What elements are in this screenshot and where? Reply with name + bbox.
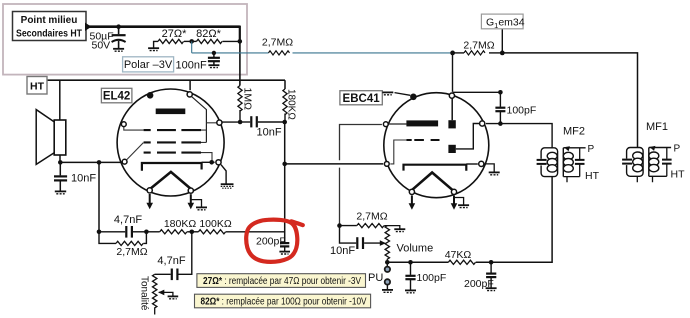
EBC41 cathode xyxy=(404,165,467,171)
wire: teal bias line down from node xyxy=(191,41,193,53)
wire: riser to output transformer xyxy=(59,80,61,120)
svg-text:27Ω* : remplacée par 47Ω pour: 27Ω* : remplacée par 47Ω pour obtenir -3… xyxy=(203,276,361,287)
EL42 heater xyxy=(150,172,191,189)
wire 47K to corner and up to MF2 xyxy=(476,177,552,263)
EL42 cathode ground wire xyxy=(221,165,226,184)
potentiometer Volume xyxy=(385,226,433,263)
svg-text:Point milieu: Point milieu xyxy=(21,15,78,26)
wire: to EBC41 left bottom pin xyxy=(285,163,384,165)
tube EL42 envelope xyxy=(117,89,224,196)
node between 27 and 82 xyxy=(189,39,194,44)
node: EBC41 anode / coupling xyxy=(282,120,287,125)
ground PU xyxy=(382,290,393,292)
svg-text:82Ω* : remplacée par 100Ω pou: 82Ω* : remplacée par 100Ω pour obtenir -… xyxy=(201,297,367,308)
capacitor 10nF (speaker) xyxy=(54,162,96,191)
svg-text:Tonalité: Tonalité xyxy=(139,276,150,311)
wire 10nF to node xyxy=(258,121,285,123)
EBC41 diode anode squares xyxy=(448,120,455,128)
svg-text:10nF: 10nF xyxy=(71,173,96,185)
capacitor 100pF (PU filter) xyxy=(405,262,446,290)
EL42 internal anode bar xyxy=(156,109,186,115)
svg-text:Polar –3V: Polar –3V xyxy=(124,59,173,71)
svg-text:EL42: EL42 xyxy=(103,91,131,103)
svg-text:P: P xyxy=(674,144,681,155)
label box HT xyxy=(27,77,47,95)
resistor 2,7M ohm (feedback, parallel loop) xyxy=(99,232,148,258)
node: feedback network right xyxy=(144,230,149,235)
svg-text:100nF: 100nF xyxy=(176,59,207,71)
svg-text:2,7MΩ: 2,7MΩ xyxy=(463,40,494,52)
ground at left of 27 ohm xyxy=(148,48,159,50)
EBC41 pin bottom right heater xyxy=(451,189,456,194)
EL42 pin bottom left heater xyxy=(147,188,152,193)
EL42 pin bottom right heater xyxy=(188,188,193,193)
capacitor 10nF (PU coupling) xyxy=(330,226,386,257)
capacitor 100nF (bias) xyxy=(176,53,220,71)
wire to 2,7M right xyxy=(453,52,464,54)
svg-text:10nF: 10nF xyxy=(330,245,355,257)
outer box around bias supply section xyxy=(3,4,247,75)
wire: cathode line to EL42 xyxy=(60,161,121,163)
svg-text:2,7MΩ: 2,7MΩ xyxy=(116,246,147,258)
wire EBC41 heater to ground xyxy=(454,198,464,205)
wire: feedback drop xyxy=(98,162,100,231)
node: 200pF tap xyxy=(489,260,494,265)
ground for 10nF speaker xyxy=(55,191,66,193)
svg-text:4,7nF: 4,7nF xyxy=(114,214,142,226)
arrow from Point milieu box xyxy=(85,23,92,31)
MF2 secondary xyxy=(562,148,564,177)
wire: bottom line volume to 47K xyxy=(387,261,448,263)
svg-text:PU: PU xyxy=(368,272,383,284)
output transformer winding xyxy=(54,120,66,155)
EL42 pin left bottom xyxy=(122,159,127,164)
note box 1 xyxy=(197,274,366,288)
EL42 heater arrow left xyxy=(149,194,151,204)
svg-text:EBC41: EBC41 xyxy=(343,93,381,105)
wire between resistors xyxy=(184,40,197,42)
wire: top main rail from arrow to right corner xyxy=(89,25,240,28)
EBC41 grid to left bottom pin (grey) xyxy=(390,140,406,164)
ground EBC41 top left xyxy=(382,92,393,94)
EL42 pin left top xyxy=(121,122,126,127)
svg-text:1MΩ: 1MΩ xyxy=(242,88,254,111)
EBC41 pin top (diode) xyxy=(449,93,454,98)
wire: stub from ground up to 27 ohm xyxy=(154,41,158,48)
label box Polar -3V xyxy=(123,57,174,72)
label box Point milieu / Secondaires HT xyxy=(13,12,87,41)
EL42 internal grey connections xyxy=(124,123,217,161)
EBC41 heater xyxy=(412,173,452,190)
resistor 1M ohm vertical xyxy=(238,86,242,112)
speaker cone xyxy=(36,110,54,165)
note box 2 xyxy=(195,294,371,308)
wire: tone drop xyxy=(179,232,192,274)
svg-text:100KΩ: 100KΩ xyxy=(199,218,232,230)
label box EL42 xyxy=(101,88,131,103)
wire: diode line to 100pF xyxy=(453,91,501,93)
capacitor 4,7nF (feedback) xyxy=(99,214,146,238)
wire EL42 grid pin to node xyxy=(222,121,240,123)
EBC41 heater arrow left xyxy=(411,196,413,205)
wire: EBC41 riser from teal node down to top pin xyxy=(452,53,454,92)
node: G1em34 junction xyxy=(500,51,505,56)
ground EL42 heater xyxy=(196,207,207,209)
wire: EBC41 right pin to MF2 xyxy=(486,124,552,148)
svg-text:200pF: 200pF xyxy=(256,235,286,247)
EBC41 pin bottom left heater xyxy=(409,189,414,194)
node: 100pF bottom xyxy=(498,121,503,126)
wire: EBC41 grid routing (down to volume) with hop over anode wire xyxy=(340,125,382,226)
node: EL42 grid xyxy=(238,120,243,125)
node: 50uF tap xyxy=(116,24,121,29)
node: feedback network left xyxy=(97,230,102,235)
resistor 27 ohm* xyxy=(158,39,184,43)
wire: long vertical to tone network xyxy=(284,122,286,242)
ground Tonalite wiper xyxy=(168,296,179,298)
svg-text:50V: 50V xyxy=(92,40,111,52)
ground 2,7M volume xyxy=(394,229,405,231)
node: 100pF tap xyxy=(408,260,413,265)
EBC41 pin right top xyxy=(480,121,485,126)
node: EL42 cathode xyxy=(209,160,214,165)
wire 180K to node xyxy=(284,114,286,123)
capacitor 200pF (red circled) xyxy=(256,235,289,251)
svg-text:180KΩ: 180KΩ xyxy=(164,218,197,230)
ground EBC41 heater xyxy=(458,205,469,207)
capacitor 100pF (detector) xyxy=(495,92,536,123)
svg-text:82Ω*: 82Ω* xyxy=(196,28,221,40)
resistor 180K ohm (horizontal) xyxy=(146,231,159,233)
EBC41 internal anode bar xyxy=(406,120,438,126)
wire cathode to right bottom pin xyxy=(466,163,478,165)
EL42 pin marker (filled) xyxy=(147,92,154,99)
connector PU jacks xyxy=(368,262,390,289)
svg-text:MF2: MF2 xyxy=(563,126,585,138)
wire 100K to 200pF node xyxy=(226,231,285,233)
svg-text:Secondaires HT: Secondaires HT xyxy=(16,28,82,39)
EL42 anode pin internal diagonal xyxy=(192,97,207,143)
EBC41 grid dashes xyxy=(407,139,440,141)
svg-text:100pF: 100pF xyxy=(417,272,447,284)
capacitor C 50uF/50V electrolytic xyxy=(90,27,126,52)
EBC41 top-left ground wire xyxy=(395,93,411,96)
ground for 50uF xyxy=(113,49,124,51)
svg-text:HT: HT xyxy=(585,170,600,182)
EBC41 top diode to top pin xyxy=(451,98,453,120)
ground 100pF xyxy=(405,290,416,292)
EBC41 pin left top (grid) xyxy=(383,122,388,127)
resistor 2,7Mohm (bias line left) xyxy=(269,51,290,55)
EL42 grid1 dashes xyxy=(144,152,201,154)
EL42 grid2 dashes xyxy=(144,141,201,143)
wire: HT rail xyxy=(47,79,285,81)
EBC41 heater arrow right xyxy=(453,196,455,204)
wire 1M to node xyxy=(239,110,241,122)
node: speaker / cathode line xyxy=(58,160,63,165)
MF2 primary tank xyxy=(541,148,558,177)
ground EBC41 right xyxy=(489,172,500,174)
node: 100nF tap on teal line xyxy=(212,51,216,55)
svg-text:HT: HT xyxy=(30,81,45,93)
wire 82 ohm to corner xyxy=(223,40,240,42)
EBC41 anode to left pin (grey) xyxy=(389,123,407,125)
node: volume network top xyxy=(337,223,342,228)
svg-text:MF1: MF1 xyxy=(646,121,668,133)
ground 200pF red xyxy=(279,252,290,254)
wire below transformer xyxy=(59,155,61,162)
svg-text:P: P xyxy=(588,144,595,155)
svg-text:2,7MΩ: 2,7MΩ xyxy=(262,37,293,49)
capacitor 200pF (IF filter) xyxy=(464,262,496,290)
wire: stem up to G1em34 box xyxy=(501,29,503,53)
transformer MF2 xyxy=(537,126,600,183)
transformer MF1 xyxy=(622,121,685,183)
svg-text:10nF: 10nF xyxy=(257,127,282,139)
node: teal line meets EBC41 riser xyxy=(450,51,455,56)
svg-text:4,7nF: 4,7nF xyxy=(157,255,185,267)
svg-text:Volume: Volume xyxy=(397,243,434,255)
wire: 180K vertical top stub xyxy=(284,80,286,89)
node at corner xyxy=(238,39,243,44)
ground EL42 cathode (wide hatched) xyxy=(221,184,234,188)
resistor 82 ohm* xyxy=(197,39,223,43)
EBC41 pin left bottom (anode) xyxy=(384,162,389,167)
EBC41 bottom diode to right top pin xyxy=(456,124,480,149)
node: anode wire tap xyxy=(282,162,287,167)
wire EBC41 right bottom pin to ground xyxy=(485,164,494,172)
wire: long top loop to MF1 xyxy=(502,53,637,148)
node: 100pF top xyxy=(498,90,503,95)
resistor 180K ohm vertical xyxy=(283,89,287,115)
wire resistor to node xyxy=(489,52,502,54)
resistor 2,7M ohm (grid leak) xyxy=(340,225,357,227)
svg-text:100pF: 100pF xyxy=(507,105,537,117)
red hand-drawn circle xyxy=(246,220,303,262)
svg-text:180KΩ: 180KΩ xyxy=(286,89,297,120)
wire: teal bias line horizontal xyxy=(192,52,453,54)
EL42 heater arrow right xyxy=(190,194,192,203)
label box G1 em34 xyxy=(481,14,524,30)
resistor 2,7Mohm (to G1 em34) xyxy=(464,51,485,55)
node: tone tap xyxy=(190,230,195,235)
resistor 100K ohm (horizontal) xyxy=(198,230,225,234)
wire heater to ground xyxy=(191,200,202,207)
potentiometer Tonalite xyxy=(139,274,173,314)
svg-text:HT: HT xyxy=(671,169,686,181)
EL42 pin right bottom xyxy=(216,160,221,165)
ground 200pF xyxy=(486,288,497,290)
node: feedback tap xyxy=(97,160,102,165)
EBC41 pin right bottom xyxy=(479,161,484,166)
tube EBC41 envelope xyxy=(384,93,489,198)
EL42 grid3 dashes xyxy=(144,129,201,131)
svg-text:47KΩ: 47KΩ xyxy=(445,249,472,261)
wire node to 10nF xyxy=(240,121,250,123)
svg-text:G1em34: G1em34 xyxy=(486,16,525,30)
EL42 pin top anode (open) xyxy=(187,92,192,97)
node: volume bottom xyxy=(385,260,390,265)
wire: EL42 anode riser to rail xyxy=(189,80,191,90)
EL42 cathode xyxy=(142,163,202,171)
EBC41 pin marker (filled) xyxy=(410,94,417,101)
capacitor 4,7nF (tone) xyxy=(155,255,186,280)
EL42 pin right top (grid) xyxy=(217,120,222,125)
capacitor 10nF coupling xyxy=(251,116,282,138)
wire: vertical from top rail down (to 1M ohm) xyxy=(239,26,241,42)
label box EBC41 xyxy=(340,91,382,105)
svg-text:2,7MΩ: 2,7MΩ xyxy=(356,210,387,222)
wire cathode to node xyxy=(202,161,215,163)
resistor 47K ohm xyxy=(448,260,475,264)
ground for 100nF xyxy=(208,65,219,67)
svg-text:27Ω*: 27Ω* xyxy=(162,28,187,40)
